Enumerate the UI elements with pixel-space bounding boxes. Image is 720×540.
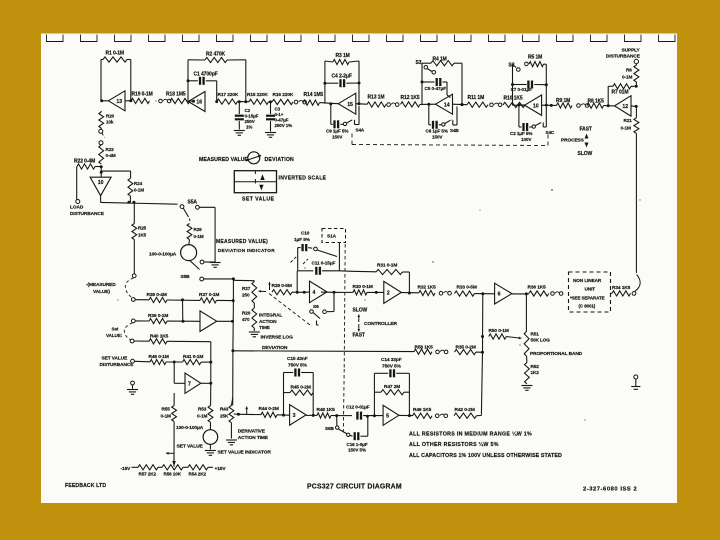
node in4b [303,291,306,294]
svg-text:R13 1M: R13 1M [368,95,385,101]
svg-text:13: 13 [116,99,122,105]
resistor R2 [205,57,227,62]
resistor R52 [526,356,528,362]
svg-text:25K: 25K [220,414,229,419]
connector pair e [577,104,581,108]
curly setvalue [124,323,132,340]
meter M2 [203,430,218,445]
svg-text:3: 3 [293,413,296,419]
svg-text:(C 8001): (C 8001) [579,304,596,309]
node R22 top [100,165,103,168]
switch S below R20 [99,129,103,133]
op-amp 4 [310,281,328,303]
svg-text:NON LINEAR: NON LINEAR [573,278,602,283]
ground C3 [265,132,276,134]
svg-text:0-1+: 0-1+ [275,112,284,117]
resistor R46 [135,360,151,363]
svg-text:C2: C2 [245,108,251,113]
svg-text:0-47μF: 0-47μF [275,118,289,123]
resistor R20b [252,308,257,328]
resistor R55 [173,393,175,406]
svg-text:750V 5%: 750V 5% [382,364,402,370]
wire meter row [101,202,178,204]
svg-text:R33 0-5M: R33 0-5M [457,284,477,290]
wire fb3 right [358,61,360,104]
wire out7 down [210,383,212,404]
op-amp 3 [290,405,307,426]
node in4 [296,291,299,294]
svg-text:MEASURED VALUE: MEASURED VALUE [199,157,249,163]
wire R40 to out7 [167,340,211,342]
svg-text:750V 5%: 750V 5% [288,362,308,368]
resistor R18 [170,98,190,103]
wire S1A down [338,243,340,271]
wire R25 down [133,240,135,274]
node C18 drop [366,415,369,418]
resistor R53 [210,404,212,406]
svg-text:S6: S6 [313,304,319,310]
deriv arrow [246,407,248,415]
resistor R39 [135,320,149,322]
dashed NON LINEAR box [569,272,611,312]
node in14 [427,103,430,106]
svg-text:SET VALUE: SET VALUE [177,444,204,450]
svg-text:R44 0-2M: R44 0-2M [259,406,279,412]
svg-text:C3: C3 [275,107,281,112]
op-amp 13 [108,91,125,111]
wire fb4 right [461,63,463,104]
resistor R35 [455,350,477,355]
capacitor C10 [298,247,301,249]
svg-text:C12 0-01μF: C12 0-01μF [346,404,370,409]
wire deriv [238,413,261,415]
svg-text:R42 0-2M: R42 0-2M [455,407,475,413]
cap C2b branch [518,105,520,127]
node R48 [335,414,338,417]
cap C6 branch [428,104,430,125]
svg-text:LOAD: LOAD [70,205,84,211]
node R50 [481,335,484,338]
svg-text:R2 470K: R2 470K [206,52,226,58]
svg-text:R24: R24 [134,181,143,186]
wire op4 in drop [296,271,298,293]
svg-text:R25: R25 [138,226,147,231]
fb5 box [373,373,375,416]
svg-text:C5 0-47μF: C5 0-47μF [425,86,447,91]
resistor R37 [200,298,217,303]
svg-text:100-0-100μA: 100-0-100μA [149,251,177,257]
svg-text:ALL CAPACITORS 1% 100V UNLESS: ALL CAPACITORS 1% 100V UNLESS OTHERWISE … [409,453,562,459]
node out5 [408,414,411,417]
node out12 [635,105,638,108]
svg-text:C15 43nF: C15 43nF [287,356,308,362]
dashed coupling S6 [269,294,312,327]
resistor R47 [374,391,381,393]
resistor R42 [454,413,477,418]
svg-text:R31 0-1M: R31 0-1M [377,263,397,269]
wire fb3 top [325,61,333,62]
wire R24 bottom [129,196,131,202]
svg-text:0-1M: 0-1M [161,414,171,419]
deviation icon [248,152,260,164]
S1 wiper dashes [291,257,297,263]
svg-text:2: 2 [387,291,390,297]
node in15 [329,102,332,105]
svg-text:CONTROLLER: CONTROLLER [364,321,398,327]
arrow set value [166,452,174,454]
svg-text:SUPPLY: SUPPLY [622,48,641,54]
resistor R25 [133,202,135,223]
node in12 [607,104,610,107]
switch S4B [442,123,445,126]
svg-text:ACTION TIME: ACTION TIME [238,435,269,441]
svg-text:0-1M: 0-1M [134,188,144,193]
wire R29 meter [188,240,191,245]
resistor R14 [303,100,320,105]
terminal meas2 [131,298,135,302]
svg-text:100-0-100μA: 100-0-100μA [176,425,204,431]
wire fb2 right [245,60,247,102]
op-amp 15 [338,93,356,114]
meter box [234,171,276,193]
svg-text:PROCESS: PROCESS [561,138,585,144]
top edge row of cut-off boxes [47,35,64,42]
resistor R40 [134,340,149,342]
connector pair c [387,103,391,107]
svg-text:R20: R20 [106,114,115,119]
resistor R9 [557,103,573,108]
svg-text:ALL OTHER RESISTORS ¼W 5%: ALL OTHER RESISTORS ¼W 5% [409,441,499,448]
node C3 top [269,100,272,103]
capacitor C5 body [422,81,435,83]
op-amp 2 [384,281,402,303]
svg-text:R41 0-1M: R41 0-1M [183,354,203,360]
svg-text:0-15μF: 0-15μF [245,114,259,119]
svg-text:R18 1M5: R18 1M5 [166,92,186,98]
resistor R29 [187,224,192,240]
connector pair b [294,100,298,104]
node R38 [181,298,184,301]
svg-text:DISTURBANCE: DISTURBANCE [100,362,135,368]
connector pair h [436,350,440,354]
blade S6B [338,429,346,434]
wire feedback right [127,59,131,61]
wire to 15 [320,102,331,105]
svg-text:INVERTED SCALE: INVERTED SCALE [279,175,327,181]
svg-text:R16 220K: R16 220K [273,92,294,98]
node deviation line [231,349,234,352]
svg-text:C2 1μF 5%: C2 1μF 5% [510,131,532,136]
svg-text:VALUE:: VALUE: [106,333,123,338]
svg-text:INTEGRAL: INTEGRAL [259,313,282,318]
wire amp10 out [100,196,102,203]
switch S6B [336,416,338,426]
svg-text:0-1M: 0-1M [621,126,631,131]
resistor R33 [455,291,475,296]
ground M2 [209,444,211,449]
switch S4C [532,125,535,128]
svg-text:R32 1K5: R32 1K5 [418,284,437,290]
op-amp 1 [200,311,217,332]
node main rail top [481,292,484,295]
switch S4A [343,122,346,125]
resistor R4 [431,61,454,66]
right rail down [635,133,637,273]
svg-text:R56 10K: R56 10K [164,472,182,477]
curve R34 to rail [635,275,640,292]
svg-text:DEVIATION: DEVIATION [265,157,295,163]
svg-text:SET VALUE INDICATOR: SET VALUE INDICATOR [218,450,272,456]
node out14 [461,103,464,106]
svg-text:R50 0-1M: R50 0-1M [489,328,509,334]
svg-text:DISTURBANCE: DISTURBANCE [70,211,105,217]
resistor R38 [135,299,149,301]
node out10 [127,201,130,204]
switch S5B out contact [200,277,204,281]
svg-text:R45 0-2M: R45 0-2M [291,385,311,391]
svg-text:R35 0-2M: R35 0-2M [456,345,476,351]
wire to 10 [519,104,525,106]
supply rail [132,466,139,468]
svg-text:R39 0-1M: R39 0-1M [148,313,168,319]
svg-text:R54 2K2: R54 2K2 [189,472,207,477]
node out6 [525,292,528,295]
white page [41,34,677,504]
svg-text:R5 1M: R5 1M [528,55,542,61]
svg-text:S4C: S4C [546,130,555,135]
svg-text:-(MEASURED: -(MEASURED [86,282,116,288]
terminal setvalue2 [130,339,134,343]
terminal meas3 [131,319,135,323]
node out10b [550,104,553,107]
svg-text:DERIVATIVE: DERIVATIVE [238,429,266,435]
pot arrow R27 [259,290,267,292]
ground mid [127,389,138,391]
svg-text:R28 0-5M: R28 0-5M [272,283,292,289]
svg-text:0-1M: 0-1M [197,414,207,419]
resistor R28 [272,290,292,295]
switch S1A blade [314,247,318,251]
svg-text:DEVIATION INDICATOR: DEVIATION INDICATOR [218,248,275,253]
node in16 [192,100,195,103]
switch S5A right [196,205,200,209]
svg-text:Set: Set [112,327,119,332]
wire in7 [173,362,175,383]
node in2 [375,291,378,294]
svg-text:R20: R20 [242,311,251,316]
svg-text:R36 1K5: R36 1K5 [528,285,547,291]
svg-text:S4A: S4A [356,128,365,133]
fb3 box [283,373,285,416]
svg-text:5: 5 [386,413,389,419]
svg-text:TIME: TIME [259,325,270,330]
arrow rail down [172,461,176,467]
capacitor C5 [421,81,424,84]
resistor R32 [419,290,435,295]
wire load [76,167,78,200]
resistor R11 [467,102,488,107]
resistor R56 [162,465,183,470]
svg-text:150V 5%: 150V 5% [348,447,366,452]
resistor R31 [352,270,376,273]
arrow up [585,134,589,139]
node fb6 [635,85,638,88]
svg-text:R43: R43 [220,407,229,412]
wire fb6 [608,85,613,87]
resistor R41 [183,360,202,365]
connector pair i [435,414,439,418]
wiper R43 [234,413,239,415]
svg-text:16: 16 [196,100,202,106]
svg-text:6: 6 [498,292,501,298]
svg-text:FEEDBACK LTD: FEEDBACK LTD [65,483,106,489]
node fb5L [373,414,376,417]
resistor R7 [613,84,631,89]
op-amp 12 [615,96,632,116]
svg-text:UNIT: UNIT [585,287,596,292]
svg-text:250V 1%: 250V 1% [275,123,293,128]
capacitor C4 [323,82,326,85]
connector pair d [490,103,494,107]
wire [100,111,102,112]
svg-text:*SEE SEPARATE: *SEE SEPARATE [570,296,605,301]
svg-text:1μF 5%: 1μF 5% [294,237,311,242]
svg-text:250: 250 [242,293,250,298]
connector R34 [632,292,636,296]
resistor R36 [529,291,549,296]
svg-text:10: 10 [533,103,539,109]
dashed gang S4 [352,145,548,146]
capacitor C2 [238,102,240,114]
svg-text:R19 0-1M: R19 0-1M [132,92,153,98]
capacitor C15 [284,372,294,374]
svg-text:R14 1M5: R14 1M5 [304,92,324,98]
op-amp 10b [525,95,542,115]
arrow R28 [269,282,271,290]
node C2 top [238,100,241,103]
svg-text:R57 2K2: R57 2K2 [139,472,157,477]
ground R43 [230,423,232,439]
resistor R24 [128,178,133,196]
resistor R49a [413,413,433,418]
svg-text:SLOW: SLOW [353,308,368,314]
wire fb5 left [512,64,514,105]
wire R38 drop [182,300,184,321]
svg-text:R11 1M: R11 1M [468,95,485,101]
resistor R51 pot [525,294,527,331]
svg-text:SLOW: SLOW [578,151,593,157]
terminal svd [131,359,135,363]
svg-text:PCS327 CIRCUIT DIAGRAM: PCS327 CIRCUIT DIAGRAM [307,484,402,491]
svg-text:ACTION: ACTION [259,319,277,324]
svg-text:DISTURBANCE: DISTURBANCE [606,53,641,59]
svg-text:R23: R23 [106,147,115,152]
wire R55 down [173,422,175,467]
blade S5A [183,208,188,217]
resistor R23 [99,145,104,164]
terminal measured value [132,274,136,278]
svg-text:470: 470 [242,317,250,322]
arrow down [585,143,589,148]
connector pair a [159,99,163,103]
op-amp 14 [436,94,453,114]
svg-text:R17 220K: R17 220K [218,92,239,98]
svg-text:MEASURED VALUE): MEASURED VALUE) [216,239,268,245]
svg-text:0-1M: 0-1M [194,234,204,239]
node out2 [408,292,411,295]
svg-text:PROPORTIONAL BAND: PROPORTIONAL BAND [530,351,583,357]
wiper R50 arrow [506,337,521,339]
resistor R17 [217,99,238,104]
switch S5A left [180,205,184,209]
svg-text:R3 1M: R3 1M [336,53,350,59]
connector pair g [551,292,555,296]
svg-text:1K2: 1K2 [531,370,540,375]
svg-text:S3: S3 [416,60,422,66]
svg-text:S6B: S6B [325,426,335,431]
wire fb2 top [188,59,205,61]
wire fb3 left [324,61,326,104]
svg-text:R10 1K5: R10 1K5 [504,95,523,101]
resistor R19 [131,98,150,103]
resistor R13 [367,102,386,107]
svg-text:150V: 150V [432,135,443,140]
capacitor C7 [511,83,514,86]
svg-text:R21: R21 [624,118,633,123]
node R41 out [209,361,212,364]
box arrow up [260,174,264,180]
resistor R8 [587,103,604,108]
op-amp 16 [188,92,205,112]
svg-text:10: 10 [98,180,104,186]
node out1 [231,320,234,323]
wire S5B out [204,278,234,280]
wire [238,101,250,103]
svg-text:R58 1K5: R58 1K5 [415,345,434,351]
wire feedback left [101,59,103,61]
wire R20b [253,303,255,308]
wire S6 L [316,321,318,326]
op-amp 7 [185,373,201,393]
node in amp10 [100,171,103,174]
resistor R16 [272,99,293,104]
terminal load [76,200,80,204]
resistor R50 [489,334,507,339]
svg-text:R53: R53 [198,407,207,412]
svg-text:C11 0-15μF: C11 0-15μF [312,261,336,266]
svg-text:R55: R55 [162,407,171,412]
svg-text:C4 2-2μF: C4 2-2μF [332,74,352,80]
svg-text:R51: R51 [531,332,540,337]
op-amp 5 [383,405,399,425]
svg-text:12: 12 [622,104,628,110]
resistor R12 [401,102,421,107]
svg-text:SET VALUE: SET VALUE [242,196,274,202]
svg-text:S4B: S4B [450,128,459,133]
svg-text:FAST: FAST [580,127,592,133]
svg-text:R1 0-1M: R1 0-1M [106,51,124,57]
svg-text:C9 1μF 5%: C9 1μF 5% [326,129,348,134]
curly measured [125,278,133,298]
wire fb5 top [544,63,547,65]
node rail a [232,277,235,280]
ground S5 rail [210,262,221,264]
wire fb4 left [421,63,423,104]
wire fb5 right [545,64,547,105]
terminal gnd mid [131,381,135,385]
node out15 [358,102,361,105]
resistor R43 pot [231,398,232,406]
